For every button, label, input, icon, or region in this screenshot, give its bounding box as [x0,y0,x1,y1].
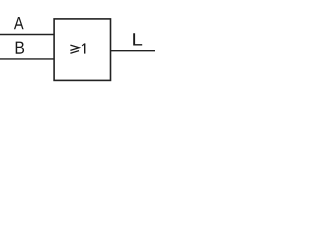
or-gate U1 symbol digit 1 [82,43,85,53]
wire input B [0,58,55,60]
node label B [16,42,24,54]
node label L [133,33,142,45]
wire output L [111,50,156,52]
wire input A [0,34,55,36]
or-gate U1 body [54,19,110,81]
or-gate U1 symbol greater-equal sign [70,45,79,53]
node label A [14,17,24,29]
